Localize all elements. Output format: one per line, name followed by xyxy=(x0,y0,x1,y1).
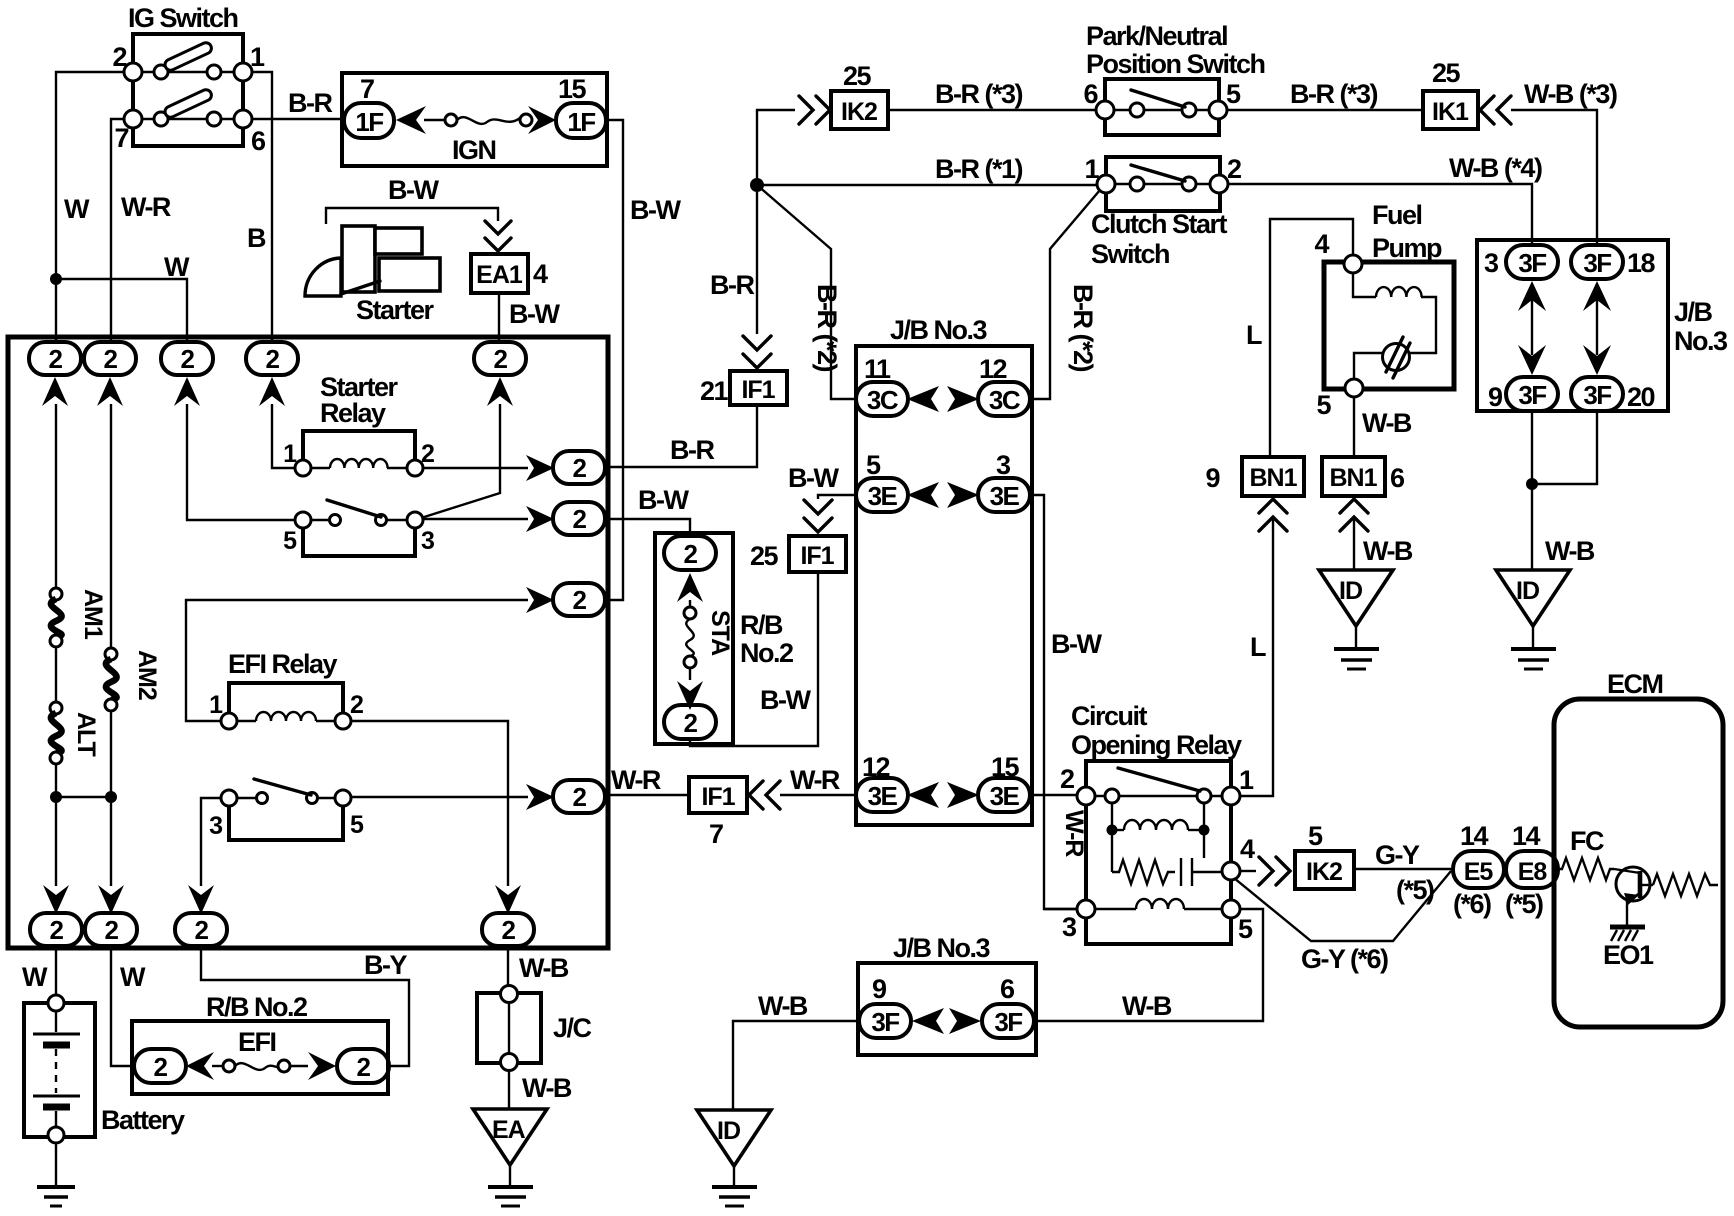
svg-text:E5: E5 xyxy=(1464,858,1494,886)
wire COR pin5 to bottom 3F-6 xyxy=(1036,909,1263,1021)
svg-text:IGN: IGN xyxy=(452,135,496,165)
svg-text:EFI Relay: EFI Relay xyxy=(228,649,338,679)
svg-text:J/B: J/B xyxy=(1674,297,1713,327)
arrow into oval row519 xyxy=(526,506,554,532)
svg-text:2: 2 xyxy=(112,42,126,72)
connector IK1 xyxy=(1423,91,1478,129)
connector 2 (top col3) xyxy=(161,342,213,375)
svg-text:W-B: W-B xyxy=(1122,991,1172,1021)
fuel pump xyxy=(1324,255,1454,397)
connector 3F top-right xyxy=(1571,245,1623,279)
wire col3 to starter relay pin5 xyxy=(187,404,295,520)
svg-text:1F: 1F xyxy=(355,107,383,137)
svg-text:3F: 3F xyxy=(1518,380,1546,410)
wire col2 upper xyxy=(110,404,112,652)
svg-text:3F: 3F xyxy=(1518,248,1546,278)
svg-text:EA1: EA1 xyxy=(476,261,523,289)
wire B-R (*1) xyxy=(757,184,1097,186)
junction connector J/C xyxy=(477,986,541,1071)
wire col5 to starter relay pin3 xyxy=(421,404,500,518)
wire 3E-15 to COR pin2 xyxy=(1030,794,1077,796)
svg-text:IF1: IF1 xyxy=(800,542,834,570)
connector 2 (row795) xyxy=(553,780,605,813)
wire relay pin3 to oval row519 xyxy=(423,518,528,520)
connector 2 (bottom col2) xyxy=(85,913,137,946)
wire W branch to col3 xyxy=(56,279,187,343)
svg-text:2: 2 xyxy=(181,344,195,374)
wire L from COR pin1 up to BN1 left xyxy=(1240,519,1273,796)
svg-text:B-W: B-W xyxy=(388,175,439,205)
ground EA xyxy=(473,1109,547,1206)
svg-text:18: 18 xyxy=(1627,248,1656,278)
connector E8 xyxy=(1506,851,1558,888)
fusible link AM2 xyxy=(105,648,117,711)
svg-text:Starter: Starter xyxy=(356,295,435,325)
wire IGN to B-W vertical xyxy=(606,120,623,600)
node B-R junction xyxy=(750,178,764,192)
connector 2 (row600) xyxy=(553,583,605,616)
wire EFI pin2 to bottom col4 xyxy=(351,721,508,886)
transistor FC driver xyxy=(1614,867,1650,925)
svg-text:2: 2 xyxy=(573,782,587,812)
wire col1 upper xyxy=(55,404,57,592)
wire IG pin7 down col2 xyxy=(111,119,124,343)
connector 2 (bottom col4) xyxy=(482,913,534,946)
svg-text:J/C: J/C xyxy=(553,1013,592,1043)
svg-text:B-R (*3): B-R (*3) xyxy=(935,79,1023,109)
svg-text:B-R (*3): B-R (*3) xyxy=(1290,79,1378,109)
svg-text:4: 4 xyxy=(1314,229,1329,259)
connector 1F left xyxy=(344,103,394,138)
svg-text:6: 6 xyxy=(1000,974,1015,1004)
wire col1 to battery xyxy=(55,946,57,996)
svg-text:STA: STA xyxy=(706,610,734,656)
arrow into oval row795 xyxy=(526,784,554,810)
wire junction down to IF1-21 xyxy=(756,192,758,334)
chevrons into IF1-7 xyxy=(749,781,763,809)
svg-text:7: 7 xyxy=(360,74,374,104)
wire col4 to starter relay pin1 xyxy=(272,404,295,468)
wire to 3E-12 xyxy=(780,794,856,796)
wire W-B (*3) to 3F-18 xyxy=(1511,110,1597,246)
arrow into 1F left xyxy=(396,106,426,134)
connector 2 (top col4) xyxy=(246,342,298,375)
svg-text:W: W xyxy=(22,962,48,992)
arrow up into STA top xyxy=(677,573,703,602)
svg-text:2: 2 xyxy=(350,691,363,719)
chevrons into IF1-25 xyxy=(804,500,832,514)
wire L bracket xyxy=(1270,219,1353,455)
svg-text:Pump: Pump xyxy=(1372,233,1442,263)
svg-text:IG Switch: IG Switch xyxy=(128,3,238,33)
svg-text:G-Y (*6): G-Y (*6) xyxy=(1301,944,1388,974)
connector 1F right xyxy=(556,103,606,138)
svg-text:2: 2 xyxy=(1227,154,1241,184)
main harness box xyxy=(8,337,608,948)
svg-text:2: 2 xyxy=(357,1052,371,1082)
svg-text:2: 2 xyxy=(50,915,64,945)
connector IK2 xyxy=(831,91,888,129)
connector IF1 21 xyxy=(730,371,787,405)
svg-text:W: W xyxy=(64,194,90,224)
fuse box IGN xyxy=(342,73,607,166)
svg-text:1: 1 xyxy=(209,691,223,719)
svg-text:(*5): (*5) xyxy=(1505,889,1543,919)
arrow into top col1 xyxy=(42,377,68,406)
svg-text:E8: E8 xyxy=(1518,858,1548,886)
connector 2 EFI left xyxy=(134,1049,186,1083)
EFI relay xyxy=(209,683,364,840)
wire J/C to EA xyxy=(508,1071,510,1109)
svg-text:5: 5 xyxy=(283,527,297,555)
arrow into EFI right xyxy=(308,1052,336,1080)
svg-text:5: 5 xyxy=(350,811,364,839)
wire IK2 to P/N pin6 xyxy=(888,109,1096,111)
wire IG pin6 to IGN xyxy=(252,118,344,120)
svg-text:W-B: W-B xyxy=(519,953,569,983)
wire BN1-6 to ID ground xyxy=(1353,519,1355,570)
node W branch xyxy=(50,273,62,285)
chevrons up into BN1 left xyxy=(1259,499,1287,513)
svg-text:5: 5 xyxy=(1316,390,1331,420)
connector BN1 right xyxy=(1322,457,1385,496)
svg-text:25: 25 xyxy=(1432,58,1461,88)
svg-text:1: 1 xyxy=(250,42,265,72)
svg-text:Circuit: Circuit xyxy=(1071,701,1148,731)
arrows between 3F verticals right xyxy=(1583,281,1611,375)
svg-text:12: 12 xyxy=(979,354,1007,384)
wire EFI pin1 loop to oval row600 xyxy=(186,600,528,721)
connector 3E left-12 xyxy=(856,778,908,812)
svg-text:EFI: EFI xyxy=(238,1027,276,1057)
wire IF1-25 to STA bottom xyxy=(690,572,818,746)
connector 3C left xyxy=(856,382,908,416)
connector 2 (row467) xyxy=(553,451,605,484)
arrows 3F pair bottom-box xyxy=(912,1008,981,1034)
wire pump pin5 to BN1-6 xyxy=(1353,397,1355,457)
svg-text:W-B: W-B xyxy=(1545,536,1595,566)
connector 3F top-left xyxy=(1506,245,1558,279)
connector 2 (top col5) xyxy=(474,342,526,375)
svg-text:2: 2 xyxy=(684,708,698,738)
wire clutch pin1 diagonal to 3C-12 xyxy=(1030,190,1100,399)
chevrons up into BN1 right xyxy=(1340,499,1368,513)
svg-text:W-R: W-R xyxy=(121,192,171,222)
svg-text:2: 2 xyxy=(502,915,516,945)
junction block J/B No.3 right xyxy=(1477,240,1668,411)
battery xyxy=(24,995,95,1143)
arrow into bottom col1 xyxy=(43,885,69,914)
fuse IGN xyxy=(424,114,532,126)
svg-text:15: 15 xyxy=(558,74,587,104)
svg-text:Position Switch: Position Switch xyxy=(1086,49,1265,79)
connector IK2 right xyxy=(1295,851,1354,889)
arrows 3E pair top xyxy=(907,482,979,508)
svg-text:B-W: B-W xyxy=(630,195,681,225)
arrow into EFI left xyxy=(186,1052,214,1080)
wire col1 mid xyxy=(55,647,57,706)
junction block J/B No.3 bottom xyxy=(858,963,1036,1055)
arrows between 3F verticals left xyxy=(1518,281,1546,375)
svg-text:L: L xyxy=(1250,632,1266,662)
arrow down into STA bottom xyxy=(677,681,703,710)
svg-text:B-Y: B-Y xyxy=(364,950,407,980)
wire 3E-5 to IF1-25 xyxy=(818,495,856,499)
starter relay xyxy=(283,431,434,556)
svg-text:11: 11 xyxy=(864,354,891,384)
connector 2 (top col2) xyxy=(84,342,136,375)
wire EFI pin3 to bottom col3 xyxy=(201,798,221,886)
svg-text:B-R: B-R xyxy=(670,435,714,465)
connector EA1 xyxy=(471,254,528,293)
svg-text:2: 2 xyxy=(573,453,587,483)
ECM box xyxy=(1554,699,1723,1027)
connector 3E right-15 xyxy=(978,778,1030,812)
svg-text:5: 5 xyxy=(866,450,881,480)
svg-text:B-R (*2): B-R (*2) xyxy=(1068,284,1098,372)
arrow into bottom col4 xyxy=(495,885,521,914)
svg-text:Relay: Relay xyxy=(320,398,386,428)
wire 3F-9 to ID ground xyxy=(733,1021,858,1110)
wire junction up to IK2 xyxy=(757,110,795,185)
connector 3F bottom-right xyxy=(1571,377,1623,411)
connector E5 xyxy=(1453,851,1504,888)
fusible link ALT xyxy=(50,702,62,764)
wire COR pin3 left entry xyxy=(1044,908,1077,910)
ground ID right xyxy=(1496,570,1570,669)
arrow into top col5 xyxy=(487,377,513,406)
connector 3E right-3 xyxy=(978,478,1030,512)
svg-text:2: 2 xyxy=(421,440,434,468)
svg-text:IF1: IF1 xyxy=(701,783,735,811)
connector 3E left-5 xyxy=(856,478,908,512)
svg-text:W: W xyxy=(120,962,146,992)
svg-text:R/B: R/B xyxy=(740,610,783,640)
svg-text:6: 6 xyxy=(251,126,266,156)
connector 3F bottom-box left xyxy=(859,1004,911,1038)
svg-text:W-R: W-R xyxy=(790,765,840,795)
svg-text:25: 25 xyxy=(750,541,779,571)
connector 2 STA top xyxy=(664,536,716,570)
connector 2 EFI right xyxy=(337,1049,389,1083)
chevrons into IF1-21 xyxy=(743,336,771,350)
fuse EFI xyxy=(212,1060,308,1072)
svg-text:1: 1 xyxy=(283,440,297,468)
svg-text:ID: ID xyxy=(1516,577,1539,605)
arrow into oval row600 xyxy=(526,587,554,613)
connector IF1 7 xyxy=(689,777,747,813)
svg-text:3E: 3E xyxy=(868,781,898,811)
svg-text:3: 3 xyxy=(1062,912,1077,942)
ground EO1 hatched xyxy=(1610,927,1645,941)
connector 2 (bottom col1) xyxy=(30,913,82,946)
svg-text:ECM: ECM xyxy=(1607,669,1663,699)
svg-text:B-R (*1): B-R (*1) xyxy=(935,154,1023,184)
chevrons into IK2 xyxy=(799,96,813,124)
wire starter to EA1 xyxy=(326,208,498,224)
svg-text:2: 2 xyxy=(573,585,587,615)
wire row795 to IF1-7 xyxy=(606,794,689,796)
svg-text:Battery: Battery xyxy=(101,1105,185,1135)
svg-text:6: 6 xyxy=(1083,79,1098,109)
svg-text:3: 3 xyxy=(996,450,1011,480)
svg-text:(*5): (*5) xyxy=(1396,875,1434,905)
ground ID fuelpump xyxy=(1319,570,1393,669)
svg-text:No.3: No.3 xyxy=(1674,326,1728,356)
svg-text:ALT: ALT xyxy=(72,712,100,756)
svg-text:4: 4 xyxy=(533,259,548,289)
ground battery xyxy=(37,1187,75,1206)
svg-text:1F: 1F xyxy=(567,107,595,137)
clutch start switch xyxy=(1084,154,1241,211)
svg-text:B-R: B-R xyxy=(288,88,332,118)
fuse STA xyxy=(684,600,696,680)
svg-text:W-R: W-R xyxy=(611,765,661,795)
svg-text:J/B No.3: J/B No.3 xyxy=(893,933,991,963)
svg-text:Clutch Start: Clutch Start xyxy=(1091,209,1228,239)
arrow into oval row467 xyxy=(526,455,554,481)
starter icon xyxy=(305,226,440,296)
svg-text:3: 3 xyxy=(209,812,222,840)
svg-text:14: 14 xyxy=(1460,821,1489,851)
arrow into 1F right xyxy=(528,106,556,134)
svg-text:B-R (*2): B-R (*2) xyxy=(812,284,842,372)
svg-text:AM1: AM1 xyxy=(79,589,107,640)
svg-text:Opening Relay: Opening Relay xyxy=(1071,730,1242,760)
svg-text:EO1: EO1 xyxy=(1603,940,1654,970)
svg-text:7: 7 xyxy=(709,819,723,849)
svg-text:B-W: B-W xyxy=(638,485,689,515)
svg-text:J/B No.3: J/B No.3 xyxy=(890,315,988,345)
svg-text:9: 9 xyxy=(872,974,887,1004)
svg-text:B-W: B-W xyxy=(760,685,811,715)
connector 2 (row519) xyxy=(553,502,605,535)
arrow into top col4 xyxy=(259,377,285,406)
svg-text:IK2: IK2 xyxy=(1306,858,1342,886)
svg-text:W-B: W-B xyxy=(522,1073,572,1103)
svg-text:6: 6 xyxy=(1390,463,1405,493)
wire col1 lower xyxy=(55,764,57,886)
arrows 3C pair xyxy=(907,386,979,412)
svg-text:B-W: B-W xyxy=(788,463,839,493)
wire 3E-3 down B-W xyxy=(1030,495,1077,909)
ground ID bottom xyxy=(697,1110,771,1206)
svg-text:BN1: BN1 xyxy=(1249,464,1297,492)
svg-text:EA: EA xyxy=(492,1116,526,1144)
chevrons into IK2-5 xyxy=(1259,857,1273,885)
arrow into top col3 xyxy=(174,377,200,406)
wire clutch pin2 W-B (*4) to 3F-3 xyxy=(1228,184,1532,246)
svg-text:IK2: IK2 xyxy=(841,98,877,126)
relay block R/B No.2 STA xyxy=(655,533,733,744)
wire COR pin4 to IK2 xyxy=(1240,870,1256,872)
svg-text:W-B: W-B xyxy=(758,991,808,1021)
svg-text:G-Y: G-Y xyxy=(1375,840,1420,870)
wire G-Y (*6) alternate xyxy=(1234,871,1451,941)
arrows 3E pair bottom xyxy=(907,782,979,808)
svg-text:3F: 3F xyxy=(1583,248,1611,278)
arrow into top col2 xyxy=(97,377,123,406)
svg-text:4: 4 xyxy=(1240,834,1255,864)
svg-text:B: B xyxy=(247,223,266,253)
svg-text:W-B (*4): W-B (*4) xyxy=(1449,153,1542,183)
jumper col1-col2 xyxy=(56,796,111,798)
svg-text:W-B: W-B xyxy=(1363,536,1413,566)
svg-text:W-B (*3): W-B (*3) xyxy=(1524,79,1617,109)
IG Switch xyxy=(112,34,266,156)
wire col2 lower xyxy=(110,711,112,886)
svg-text:ID: ID xyxy=(717,1117,740,1145)
resistor right of transistor xyxy=(1642,874,1718,896)
svg-text:IF1: IF1 xyxy=(741,376,775,404)
junction dot xyxy=(50,791,62,803)
svg-text:14: 14 xyxy=(1512,821,1541,851)
svg-text:Fuel: Fuel xyxy=(1372,200,1422,230)
svg-text:3C: 3C xyxy=(989,385,1021,415)
svg-text:IK1: IK1 xyxy=(1432,98,1469,126)
connector 3C right xyxy=(978,382,1030,416)
resistor FC xyxy=(1558,858,1614,880)
junction block J/B No.3 center xyxy=(856,346,1032,825)
svg-text:(*6): (*6) xyxy=(1453,889,1491,919)
fusible link AM1 xyxy=(50,588,62,647)
svg-text:3E: 3E xyxy=(990,481,1020,511)
svg-text:3F: 3F xyxy=(871,1007,899,1037)
wire row519 to STA xyxy=(606,519,690,538)
svg-text:3E: 3E xyxy=(868,481,898,511)
svg-text:2: 2 xyxy=(494,344,508,374)
svg-text:Switch: Switch xyxy=(1091,239,1169,269)
wire battery to ground xyxy=(55,1143,57,1186)
svg-text:2: 2 xyxy=(266,344,280,374)
chevron arrows down to EA1 xyxy=(485,221,511,234)
svg-text:B-W: B-W xyxy=(509,299,560,329)
park/neutral position switch xyxy=(1083,79,1241,135)
svg-text:3E: 3E xyxy=(990,781,1020,811)
svg-text:BN1: BN1 xyxy=(1329,464,1377,492)
svg-text:2: 2 xyxy=(104,344,118,374)
svg-text:2: 2 xyxy=(1060,764,1074,794)
svg-text:2: 2 xyxy=(49,344,63,374)
svg-text:FC: FC xyxy=(1570,826,1604,856)
svg-text:5: 5 xyxy=(1238,914,1253,944)
wire row467 to IF1-21 xyxy=(606,405,757,467)
svg-text:2: 2 xyxy=(573,504,587,534)
junction dot 3F xyxy=(1526,478,1538,490)
svg-text:Park/Neutral: Park/Neutral xyxy=(1086,21,1227,51)
wires 3F bottoms join xyxy=(1532,411,1597,484)
wire IG pin2 down col1 xyxy=(56,72,124,343)
svg-text:2: 2 xyxy=(154,1052,168,1082)
svg-text:3F: 3F xyxy=(994,1007,1022,1037)
svg-text:R/B No.2: R/B No.2 xyxy=(206,992,307,1022)
svg-text:2: 2 xyxy=(195,915,209,945)
svg-text:ID: ID xyxy=(1339,577,1362,605)
svg-text:L: L xyxy=(1246,320,1262,350)
svg-text:3: 3 xyxy=(421,527,434,555)
svg-text:1: 1 xyxy=(1239,765,1254,795)
svg-text:25: 25 xyxy=(843,61,872,91)
svg-text:3F: 3F xyxy=(1583,380,1611,410)
wire col3 B-Y to EFI fuse right xyxy=(201,946,409,1066)
svg-text:5: 5 xyxy=(1226,79,1241,109)
svg-text:B-R: B-R xyxy=(710,270,754,300)
svg-text:3C: 3C xyxy=(867,385,899,415)
relay block R/B No.2 EFI xyxy=(132,1021,388,1094)
junction dot xyxy=(105,791,117,803)
svg-text:7: 7 xyxy=(114,123,128,153)
arrow into bottom col3 xyxy=(188,885,214,914)
